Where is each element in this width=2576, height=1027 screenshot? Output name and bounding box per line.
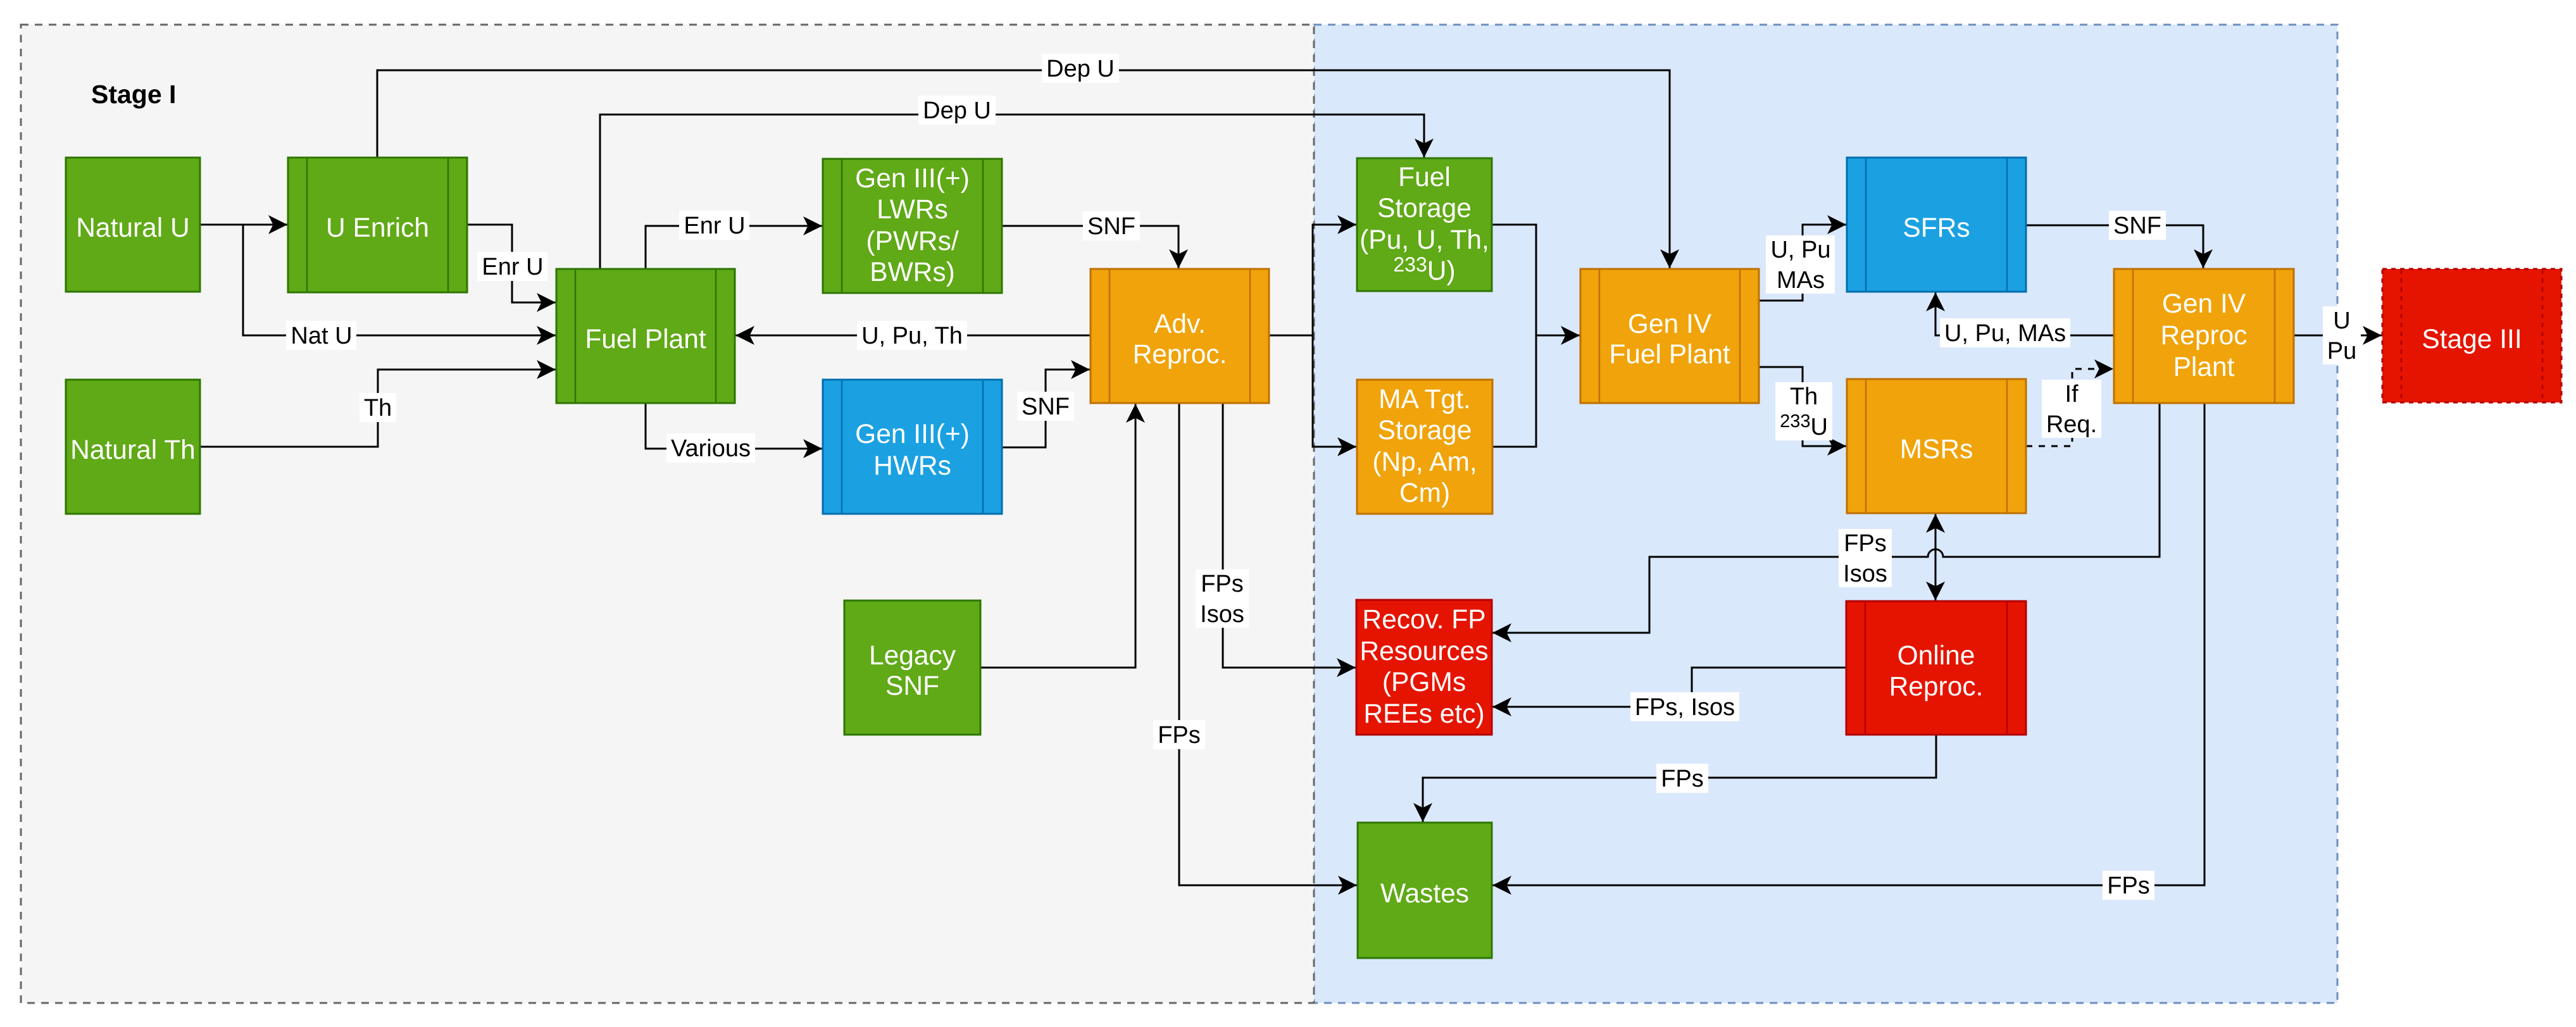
wire Dep U from Fuel Plant to Fuel Storage (600, 115, 1424, 269)
box U Enrich (288, 158, 467, 292)
label Dep U (second) (918, 96, 996, 125)
svg-text:Natural U: Natural U (76, 213, 190, 243)
region Stage I (gray) (21, 25, 1314, 1003)
wire FPs from Adv Reproc to Wastes (1179, 403, 1358, 885)
label Enr U (to LWRs) (679, 211, 749, 240)
box Online Reproc (1846, 601, 2026, 735)
svg-text:FPs, Isos: FPs, Isos (1635, 694, 1735, 721)
wire double arrow MSRs and Online Reproc (1935, 513, 1937, 601)
label FPs (Adv Reproc to Wastes) (1153, 720, 1205, 749)
label Dep U (top) (1042, 54, 1119, 83)
box Recov FP Resources (1356, 600, 1492, 735)
label SNF (LWRs) (1083, 211, 1140, 240)
wire Fuel Storage to Gen IV Fuel Plant (1492, 225, 1580, 335)
svg-text:Fuel Plant: Fuel Plant (585, 325, 706, 354)
label U Pu MAs (to SFRs) (1766, 235, 1835, 294)
wire Natural U to U Enrich (200, 224, 288, 226)
box Gen III(+) HWRs (823, 380, 1002, 514)
wire Adv Reproc to MA Tgt Storage (1313, 335, 1357, 447)
box Wastes (1358, 823, 1492, 958)
svg-text:Various: Various (671, 435, 751, 462)
label SNF (SFRs) (2109, 211, 2166, 240)
wire Nat U branch to Fuel Plant (243, 225, 556, 335)
label If Req (2042, 380, 2101, 438)
svg-text:Enr U: Enr U (684, 213, 745, 239)
box Fuel Plant (556, 269, 735, 403)
label U Pu (2323, 306, 2361, 364)
label SNF (HWRs) (1017, 392, 1074, 421)
svg-text:Nat U: Nat U (291, 323, 352, 349)
box Natural Th (66, 380, 200, 514)
wire FPs Isos from Adv Reproc to Recov FP (1223, 403, 1356, 668)
box MA Tgt Storage (1357, 380, 1492, 514)
svg-text:Wastes: Wastes (1380, 879, 1469, 909)
box MSRs (1847, 379, 2026, 513)
svg-text:SNF: SNF (2113, 213, 2161, 239)
wire If Req dashed from MSRs to Gen IV Reproc Plant (2026, 369, 2114, 446)
wire FPs Isos from Gen IV Reproc Plant to Recov FP (with hop) (1492, 403, 2160, 633)
label FPs (Online to Wastes) (1656, 764, 1708, 793)
box Stage III (2382, 269, 2561, 402)
box Natural U (66, 158, 200, 292)
label Th (360, 393, 396, 422)
wire SNF from HWRs to Adv Reproc (1002, 370, 1091, 447)
region Stage II (blue) (1314, 25, 2337, 1003)
wire FPs Isos from Online Reproc to Recov FP (1492, 668, 1846, 707)
svg-text:MSRs: MSRs (1900, 435, 1973, 464)
wire U Pu Th from Adv Reproc to Fuel Plant (735, 335, 1091, 337)
wire Adv Reproc to Fuel Storage (1269, 225, 1357, 335)
svg-text:Dep U: Dep U (1046, 56, 1115, 82)
wire FPs from Online Reproc to Wastes (1423, 735, 1936, 823)
svg-text:U, Pu, Th: U, Pu, Th (861, 323, 963, 349)
wire Enr U from U Enrich to Fuel Plant (467, 225, 556, 302)
wire Various from Fuel Plant to HWRs (646, 403, 823, 449)
label FPs Isos (Adv Reproc) (1196, 570, 1249, 628)
label Th 233U (to MSRs) (1775, 382, 1832, 440)
wire SNF from LWRs to Adv Reproc (1002, 226, 1179, 269)
label U Pu Th (857, 321, 967, 350)
svg-text:Gen IVReprocPlant: Gen IVReprocPlant (2160, 289, 2247, 382)
box Legacy SNF (844, 601, 980, 735)
svg-text:SFRs: SFRs (1903, 213, 1970, 243)
wire SNF from SFRs to Gen IV Reproc Plant (2026, 225, 2203, 269)
svg-text:Th: Th (364, 395, 392, 421)
wire Th 233U from Gen IV Fuel Plant to MSRs (1759, 367, 1847, 446)
box Gen IV Fuel Plant (1580, 269, 1759, 403)
svg-text:SNF: SNF (1087, 213, 1135, 240)
wire U Pu from Gen IV Reproc Plant to Stage III (2294, 335, 2382, 337)
wire FPs from Gen IV Reproc Plant to Wastes (1492, 403, 2204, 885)
box SFRs (1847, 158, 2026, 292)
wire Th from Natural Th to Fuel Plant (200, 370, 556, 447)
svg-text:U, Pu, MAs: U, Pu, MAs (1944, 320, 2066, 347)
box Gen III(+) LWRs (823, 159, 1002, 293)
wire U Pu MAs from Gen IV Fuel Plant to SFRs (1759, 225, 1847, 301)
label Various (666, 433, 755, 463)
label Enr U (to Fuel Plant) (477, 252, 547, 281)
svg-text:SNF: SNF (1022, 394, 1070, 420)
svg-text:Natural Th: Natural Th (70, 435, 196, 465)
wire MA Tgt Storage to Gen IV Fuel Plant (1492, 335, 1536, 447)
wire U Pu MAs from Gen IV Reproc Plant to SFRs (1935, 292, 2114, 335)
wire Dep U from U Enrich to Gen IV Fuel Plant (377, 70, 1670, 269)
svg-text:Stage I: Stage I (91, 80, 176, 109)
svg-text:Stage III: Stage III (2422, 325, 2522, 354)
svg-text:FPs: FPs (1661, 766, 1704, 792)
svg-text:U Enrich: U Enrich (326, 213, 429, 243)
svg-text:Enr U: Enr U (482, 254, 543, 280)
box Fuel Storage (1357, 158, 1492, 291)
label FPs Isos (Gen IV RP) (1839, 529, 1892, 587)
wire Legacy SNF to Adv Reproc (980, 403, 1135, 668)
svg-text:FPs: FPs (1158, 722, 1201, 749)
box Gen IV Reproc Plant (2114, 269, 2294, 403)
label U Pu MAs (to Gen IV RP) (1940, 318, 2070, 347)
svg-text:FPs: FPs (2107, 873, 2150, 899)
label FPs (Gen IV RP to Wastes) (2103, 871, 2154, 900)
box Adv Reproc (1091, 269, 1269, 403)
svg-text:Dep U: Dep U (923, 97, 991, 124)
label Nat U (286, 321, 356, 350)
label FPs Isos (Online Reproc) (1630, 692, 1739, 721)
wire Enr U from Fuel Plant to LWRs (646, 226, 823, 269)
